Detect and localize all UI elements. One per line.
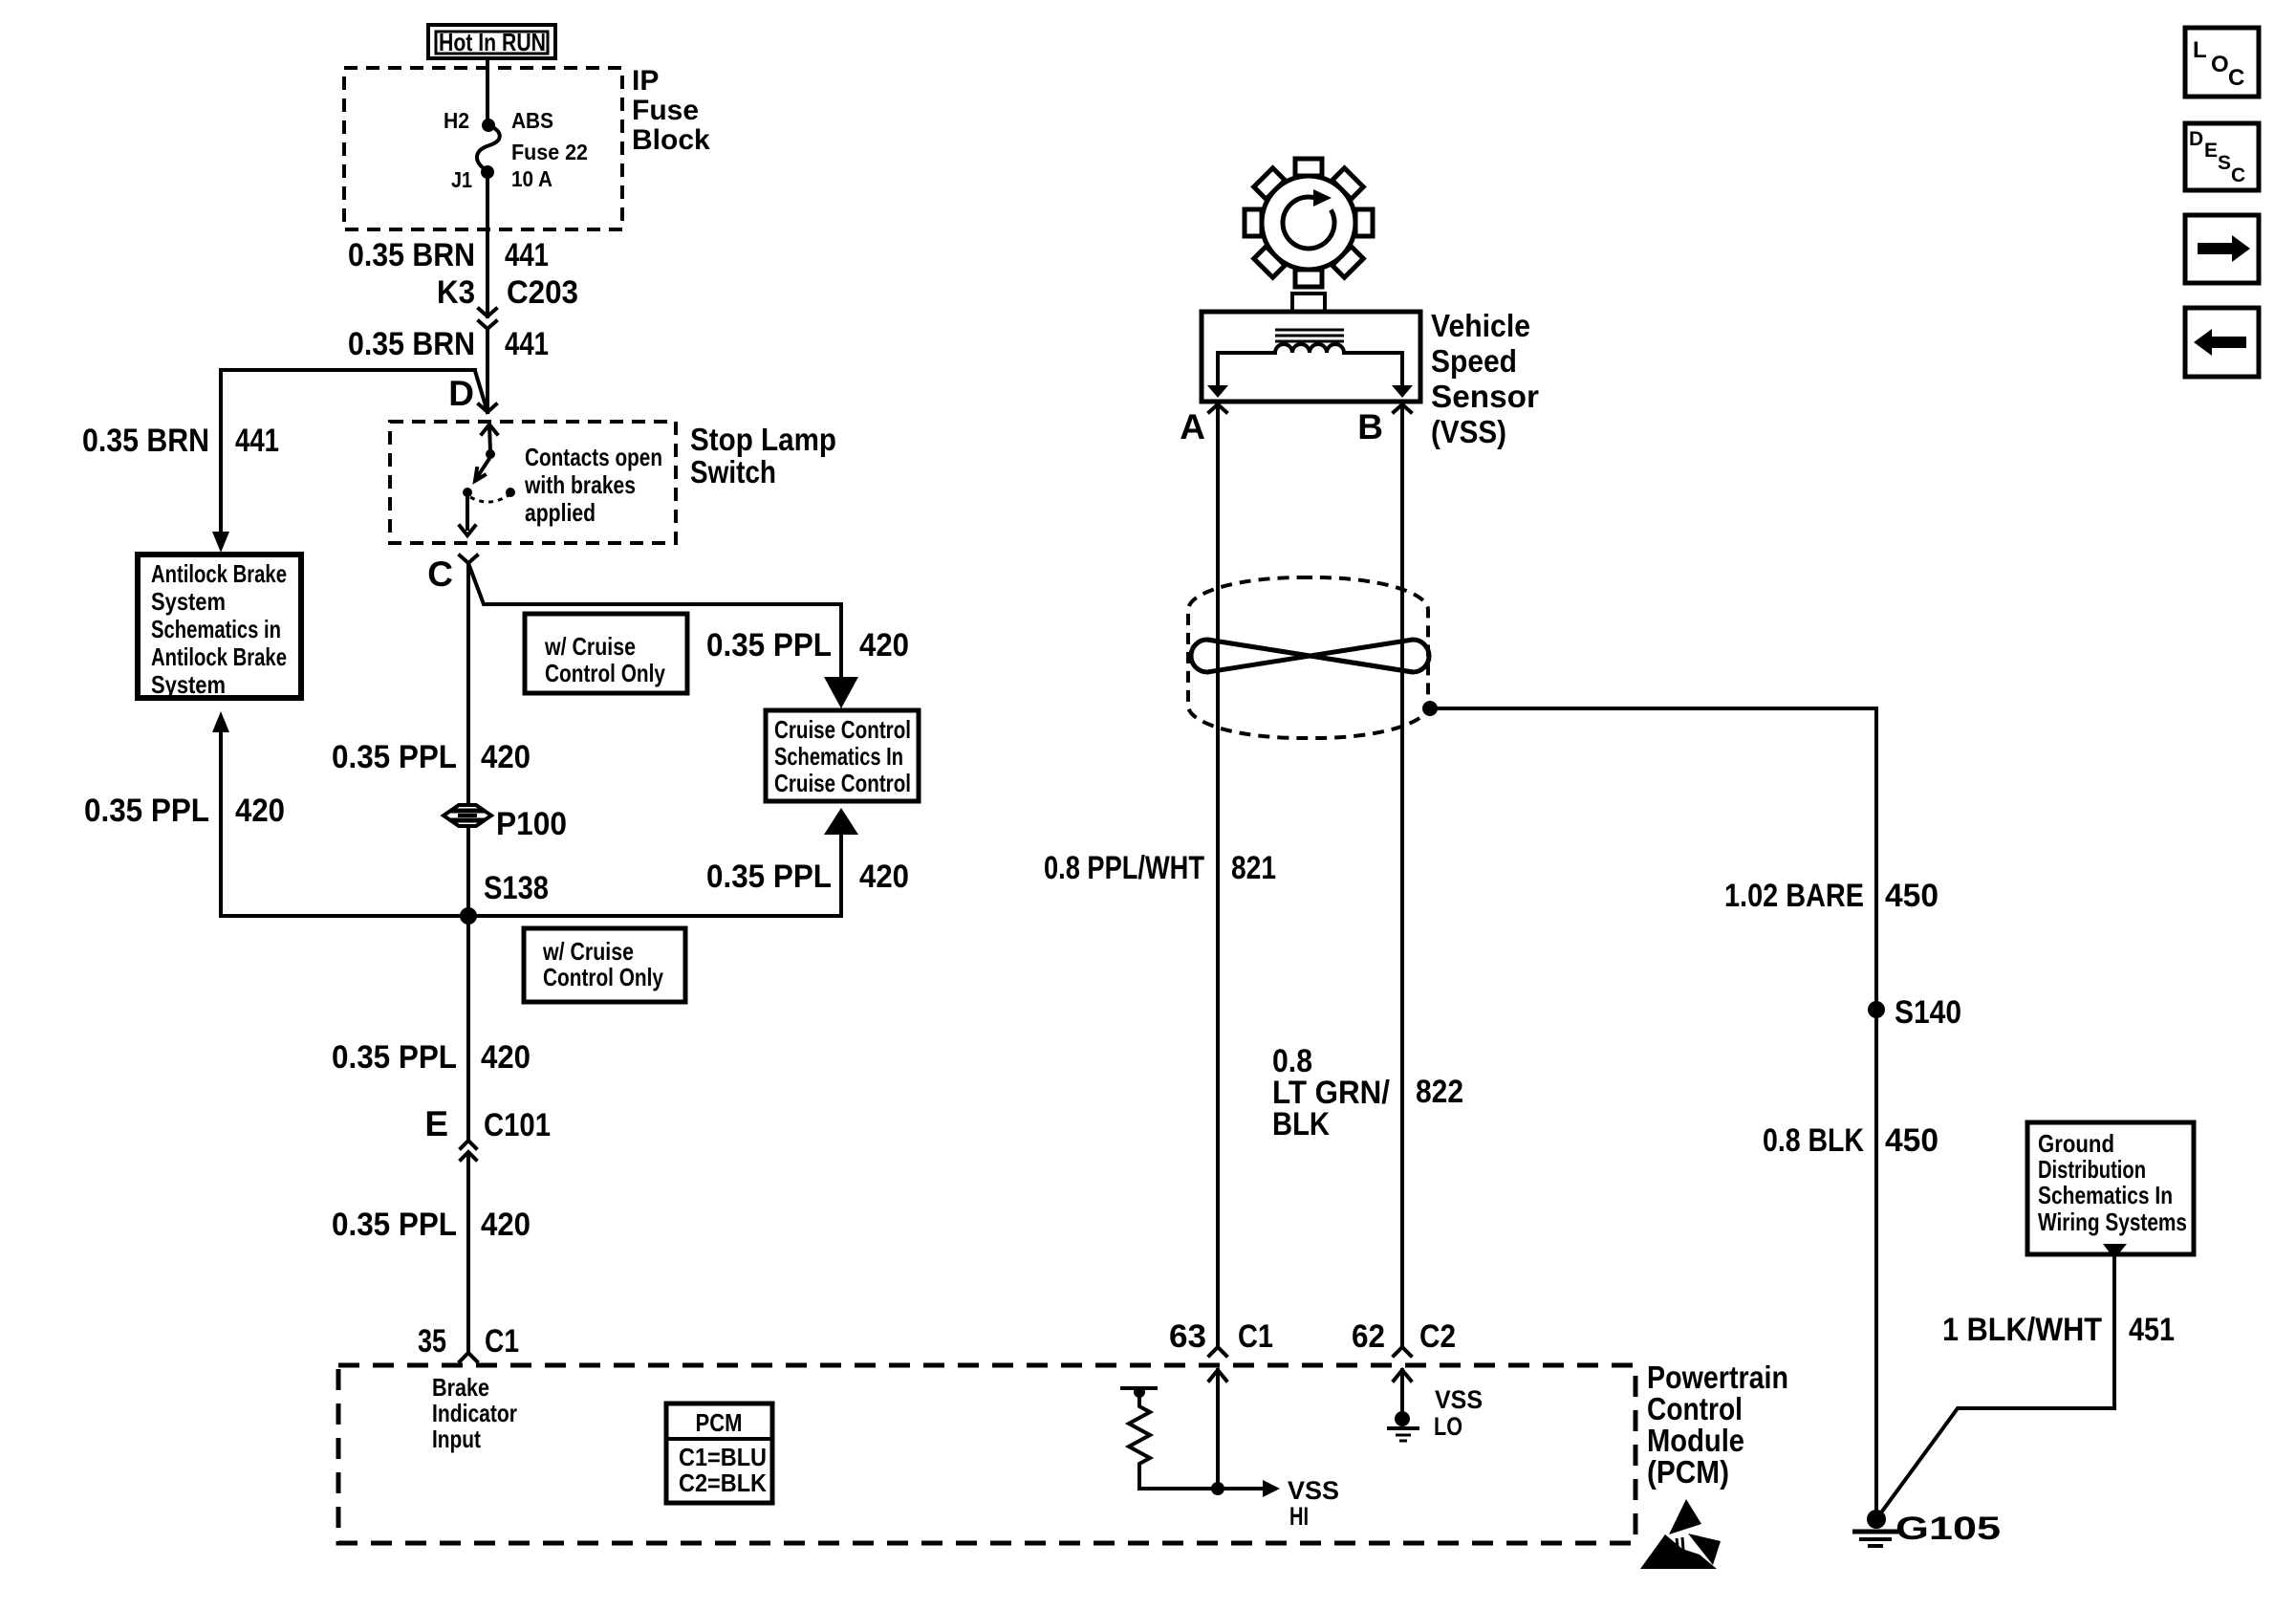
svg-text:C: C	[2231, 164, 2245, 186]
svg-text:Control: Control	[1647, 1391, 1743, 1426]
svg-text:0.35 BRN: 0.35 BRN	[82, 423, 209, 459]
svg-text:Speed: Speed	[1431, 343, 1517, 379]
svg-text:1.02 BARE: 1.02 BARE	[1724, 878, 1864, 914]
wire label 1 BLK/WHT 451	[1942, 1312, 2175, 1348]
connector C203 terminal K3	[437, 274, 578, 329]
svg-text:S140: S140	[1895, 994, 1961, 1031]
wire label 0.35 PPL 420	[332, 1039, 531, 1076]
svg-text:Ground: Ground	[2038, 1129, 2114, 1158]
svg-text:ABS: ABS	[511, 108, 553, 133]
svg-text:Hot In RUN: Hot In RUN	[439, 28, 546, 56]
svg-text:B: B	[1357, 407, 1383, 446]
terminal B of VSS	[1357, 404, 1411, 446]
svg-text:35: 35	[418, 1323, 446, 1360]
Brake Indicator Input label	[432, 1373, 517, 1453]
wire branch C to cruise control	[468, 563, 841, 677]
svg-text:0.8 PPL/WHT: 0.8 PPL/WHT	[1044, 850, 1204, 886]
svg-text:Schematics In: Schematics In	[774, 742, 903, 771]
w/ Cruise Control Only note box	[524, 928, 685, 1002]
svg-text:0.35 PPL: 0.35 PPL	[84, 793, 209, 829]
svg-text:C2: C2	[1419, 1318, 1456, 1355]
Antilock Brake System reference box	[138, 555, 301, 699]
wire S138 down to C101	[466, 916, 470, 1141]
wire C101 to PCM pin 35	[466, 1153, 470, 1353]
w/ Cruise Control Only note box	[525, 614, 687, 693]
svg-text:C101: C101	[484, 1107, 551, 1143]
svg-text:(VSS): (VSS)	[1431, 414, 1506, 449]
switch note text	[524, 443, 662, 527]
svg-text:441: 441	[235, 423, 279, 459]
splice S138	[460, 870, 549, 925]
svg-text:Antilock Brake: Antilock Brake	[151, 642, 287, 671]
terminal H2	[482, 119, 495, 132]
svg-text:(PCM): (PCM)	[1647, 1454, 1729, 1490]
svg-text:E: E	[424, 1104, 448, 1143]
grommet P100	[444, 805, 567, 842]
svg-text:J1: J1	[451, 167, 472, 192]
svg-text:Stop Lamp: Stop Lamp	[690, 422, 836, 457]
svg-text:C1: C1	[485, 1323, 519, 1360]
svg-text:C1: C1	[1238, 1318, 1273, 1355]
svg-text:C2=BLK: C2=BLK	[679, 1469, 767, 1497]
svg-text:Sensor: Sensor	[1431, 379, 1539, 414]
VSS HI input arrow inside PCM	[1209, 1370, 1339, 1531]
svg-text:VSS: VSS	[1435, 1385, 1483, 1414]
arrow into Antilock box	[212, 532, 229, 553]
reluctor gear icon	[1245, 159, 1373, 287]
svg-text:K3: K3	[437, 274, 475, 311]
svg-text:10 A: 10 A	[511, 166, 552, 191]
svg-text:Vehicle: Vehicle	[1431, 308, 1530, 343]
svg-text:D: D	[2189, 128, 2203, 150]
wire label 0.8 PPL/WHT 821	[1044, 850, 1276, 886]
ESD sensitivity symbol	[1640, 1499, 1721, 1569]
arrow up into Cruise Control box	[824, 808, 858, 835]
shield drain junction	[1422, 701, 1438, 716]
terminal J1	[481, 165, 494, 179]
VSS pickup coil core	[1275, 330, 1344, 341]
svg-text:1 BLK/WHT: 1 BLK/WHT	[1942, 1312, 2102, 1348]
svg-text:IP: IP	[632, 65, 659, 97]
svg-text:0.35 PPL: 0.35 PPL	[332, 1039, 457, 1076]
svg-text:VSS: VSS	[1288, 1476, 1339, 1505]
svg-text:420: 420	[481, 1207, 531, 1243]
svg-text:H2: H2	[444, 108, 469, 133]
svg-text:450: 450	[1885, 878, 1939, 914]
svg-text:0.35 PPL: 0.35 PPL	[706, 859, 832, 895]
wire label 0.8 BLK 450	[1763, 1122, 1939, 1159]
wire J1 to connector C203	[486, 172, 489, 316]
svg-text:C1=BLU: C1=BLU	[679, 1443, 767, 1471]
svg-text:441: 441	[505, 237, 549, 273]
svg-text:450: 450	[1885, 1122, 1939, 1159]
wire S138 horizontal run	[221, 914, 841, 918]
svg-text:C: C	[427, 555, 453, 594]
wire label 0.35 BRN 441	[348, 237, 549, 273]
IP Fuse Block dashed box	[344, 68, 622, 229]
svg-text:with brakes: with brakes	[524, 470, 636, 499]
svg-text:420: 420	[235, 793, 285, 829]
wire label 0.35 PPL 420	[706, 627, 909, 664]
svg-text:Schematics in: Schematics in	[151, 615, 281, 643]
svg-text:C203: C203	[507, 274, 578, 311]
svg-text:441: 441	[505, 326, 549, 362]
svg-text:P100: P100	[496, 806, 567, 842]
svg-text:G105: G105	[1895, 1511, 2001, 1547]
svg-text:Fuse 22: Fuse 22	[511, 140, 588, 164]
svg-text:Schematics In: Schematics In	[2038, 1181, 2173, 1209]
svg-text:applied: applied	[525, 498, 596, 527]
svg-text:Brake: Brake	[432, 1373, 489, 1402]
svg-text:Indicator: Indicator	[432, 1399, 517, 1427]
pin 35 connector C1 of PCM	[418, 1323, 519, 1361]
svg-text:0.35 BRN: 0.35 BRN	[348, 237, 475, 273]
Stop Lamp Switch dashed box	[390, 422, 676, 543]
arrow up from wire below Antilock box	[212, 711, 229, 732]
ground G105	[1852, 1510, 2001, 1547]
Stop Lamp Switch label	[690, 422, 836, 490]
svg-text:420: 420	[859, 627, 909, 664]
svg-text:HI: HI	[1289, 1502, 1309, 1531]
svg-text:Cruise Control: Cruise Control	[774, 715, 911, 744]
wire from Hot In RUN to fuse terminal H2	[486, 58, 489, 125]
svg-text:420: 420	[481, 739, 531, 775]
wire VSS A to PCM 63	[1216, 404, 1220, 1347]
forward arrow legend box	[2185, 215, 2259, 283]
wire label 0.35 PPL 420	[332, 739, 531, 775]
wire label 0.35 PPL 420	[706, 859, 909, 895]
svg-text:PCM: PCM	[696, 1408, 743, 1437]
svg-text:451: 451	[2129, 1312, 2175, 1348]
svg-text:LO: LO	[1434, 1412, 1462, 1441]
svg-text:0.35 BRN: 0.35 BRN	[348, 326, 475, 362]
PCM connector legend box	[666, 1403, 772, 1503]
svg-text:D: D	[448, 374, 474, 413]
svg-text:Distribution: Distribution	[2038, 1155, 2146, 1184]
IP Fuse Block label	[632, 65, 710, 156]
svg-text:Fuse: Fuse	[632, 95, 699, 126]
svg-text:Antilock Brake: Antilock Brake	[151, 559, 287, 588]
svg-text:0.35 PPL: 0.35 PPL	[332, 739, 457, 775]
svg-text:w/ Cruise: w/ Cruise	[542, 937, 634, 966]
pin 62 connector C2 of PCM	[1352, 1318, 1456, 1356]
VSS name label	[1431, 308, 1539, 449]
svg-text:0.35 PPL: 0.35 PPL	[706, 627, 832, 664]
VSS pickup coil	[1275, 344, 1344, 353]
svg-text:822: 822	[1416, 1074, 1463, 1110]
shielded twisted pair	[1188, 577, 1429, 738]
svg-text:Module: Module	[1647, 1423, 1744, 1458]
wire VSS B to PCM 62	[1400, 404, 1404, 1347]
svg-text:BLK: BLK	[1272, 1106, 1330, 1142]
svg-text:System: System	[151, 587, 226, 616]
wire C down to P100	[466, 563, 470, 812]
wire from S138 up to Cruise Control arrow	[839, 835, 843, 916]
Ground Distribution reference box	[2027, 1122, 2194, 1254]
VSS internal leads	[1207, 353, 1413, 398]
wire label 0.35 BRN 441	[82, 423, 279, 459]
wire C203 to stop lamp switch	[486, 329, 489, 412]
svg-text:w/ Cruise: w/ Cruise	[544, 632, 636, 661]
svg-text:0.8 BLK: 0.8 BLK	[1763, 1122, 1864, 1159]
svg-text:Block: Block	[632, 124, 710, 156]
svg-text:S138: S138	[484, 870, 549, 906]
wire from Antilock arrow down to S138 branch	[219, 732, 223, 916]
pin 63 connector C1 of PCM	[1169, 1318, 1273, 1356]
svg-text:420: 420	[481, 1039, 531, 1076]
splice S140	[1868, 994, 1961, 1031]
wire label 0.35 PPL 420	[84, 793, 285, 829]
LOC legend box	[2185, 28, 2259, 97]
back arrow legend box	[2185, 308, 2259, 377]
svg-text:L: L	[2193, 37, 2207, 63]
svg-text:Powertrain: Powertrain	[1647, 1360, 1788, 1395]
wire branch to Antilock Brake System	[221, 370, 475, 532]
connector C101 terminal E	[424, 1104, 551, 1160]
wire G105 to Ground Distribution box	[1876, 1259, 2114, 1519]
DESC legend box	[2185, 123, 2259, 190]
svg-text:Input: Input	[432, 1425, 481, 1453]
wire shield drain to ground run	[1430, 708, 1876, 1519]
Powertrain Control Module dashed box	[338, 1365, 1635, 1543]
wire label 0.35 PPL 420	[332, 1207, 531, 1243]
wire label 1.02 BARE 450	[1724, 878, 1939, 914]
svg-text:420: 420	[859, 859, 909, 895]
svg-text:S: S	[2218, 152, 2231, 174]
arrow into Cruise Control box	[824, 677, 858, 708]
svg-text:Control Only: Control Only	[545, 659, 665, 687]
VSS LO input arrow and ground inside PCM	[1389, 1370, 1483, 1441]
terminal D of stop lamp switch	[448, 374, 496, 413]
power source box Hot In RUN	[428, 25, 555, 58]
svg-text:821: 821	[1231, 850, 1276, 886]
svg-text:A: A	[1180, 407, 1205, 446]
wire P100 to S138	[466, 826, 470, 916]
fuse F22 ABS Fuse 22 10 A	[477, 125, 500, 171]
stop lamp switch contacts	[460, 424, 515, 535]
terminal A of VSS	[1180, 404, 1226, 446]
svg-text:E: E	[2204, 140, 2218, 162]
svg-text:Contacts open: Contacts open	[525, 443, 662, 471]
pull-up resistor inside PCM	[1122, 1386, 1218, 1489]
wire label 0.8 LT GRN/BLK 822	[1272, 1043, 1463, 1142]
svg-text:O: O	[2211, 52, 2229, 77]
svg-text:0.35 PPL: 0.35 PPL	[332, 1207, 457, 1243]
arrow into Ground Distribution box	[2103, 1244, 2127, 1259]
svg-text:System: System	[151, 670, 226, 699]
terminal C of stop lamp switch	[427, 555, 477, 594]
svg-text:63: 63	[1169, 1318, 1206, 1355]
svg-text:62: 62	[1352, 1318, 1385, 1355]
svg-text:Control Only: Control Only	[543, 963, 663, 991]
wire splice diagonal at D	[475, 371, 487, 412]
Vehicle Speed Sensor box	[1202, 294, 1420, 402]
svg-text:Wiring Systems: Wiring Systems	[2038, 1207, 2187, 1236]
svg-text:C: C	[2228, 65, 2244, 91]
svg-text:Cruise Control: Cruise Control	[774, 769, 911, 797]
wire label 0.35 BRN 441	[348, 326, 549, 362]
svg-text:Switch: Switch	[690, 454, 776, 490]
PCM name label	[1647, 1360, 1788, 1490]
Cruise Control reference box	[766, 710, 919, 801]
